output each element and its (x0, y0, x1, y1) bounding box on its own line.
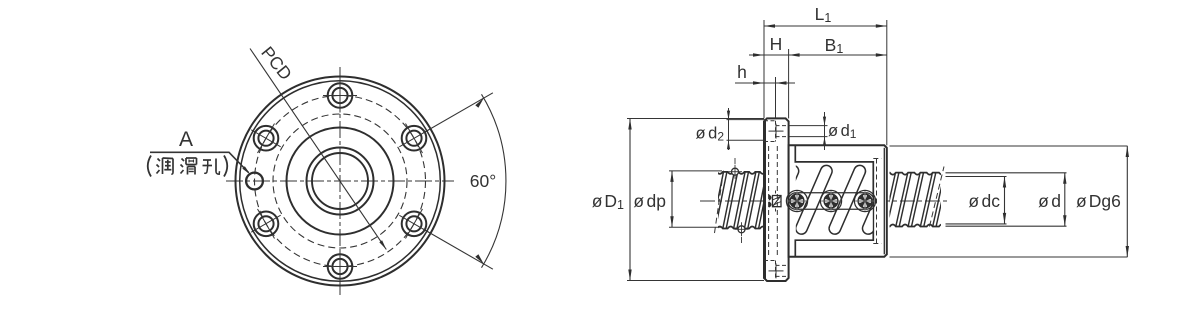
bolt hole B4 hole circle (332, 259, 347, 274)
flange outer chamfer circle (240, 81, 441, 282)
bore chamfer circle (307, 148, 374, 215)
svg-text:PCD: PCD (257, 43, 296, 84)
balls (790, 194, 804, 208)
bolt hole B5 counterbore circle (402, 212, 427, 237)
svg-text:L1: L1 (815, 4, 832, 25)
flange outer circle (236, 77, 445, 286)
svg-text:B1: B1 (825, 35, 844, 56)
svg-text:ødc: ødc (968, 191, 1000, 211)
bolt hole B4 centermark (339, 250, 341, 284)
dimension d1 (789, 125, 828, 127)
bolt hole B6 counterbore circle (402, 126, 427, 151)
bolt hole B2 hole circle (258, 131, 273, 146)
bolt hole B1 hole circle (332, 88, 347, 103)
dimension d (1064, 173, 1066, 226)
spigot recess dashed circle (273, 114, 407, 248)
svg-text:øDg6: øDg6 (1076, 191, 1121, 211)
bolt hole B3 centermark (251, 215, 281, 232)
label lubrication hole (Chinese) (148, 156, 151, 177)
svg-text:øD1: øD1 (592, 191, 624, 212)
lubrication hole (246, 173, 263, 190)
bolt hole B3 counterbore circle (254, 212, 279, 237)
flange bolt hole dashed bottom (776, 264, 789, 266)
dimension h (735, 82, 795, 84)
flange bolt centermark bottom (769, 270, 784, 272)
shaft outline d lines (946, 172, 1067, 174)
bolt hole B4 counterbore circle (328, 254, 353, 279)
flange hidden line dashed vertical (776, 146, 778, 256)
60 degree line lower (423, 229, 493, 269)
bolt hole B6 hole circle (406, 131, 421, 146)
shaft outline dc lines (946, 176, 1007, 178)
60 degree line upper (423, 93, 493, 133)
nut bore step left top (795, 145, 873, 256)
Dg6 extension lines (890, 145, 1128, 147)
svg-text:ød1: ød1 (828, 122, 857, 141)
ball track band (788, 193, 874, 210)
nut body rect (789, 145, 887, 256)
grease hole in flange (769, 194, 772, 208)
flange bolt centermark top (769, 130, 784, 132)
svg-text:ød: ød (1038, 191, 1061, 211)
dimension Dg6 (1126, 146, 1128, 257)
flange left edge thick (764, 120, 766, 279)
dimension dc (1004, 177, 1006, 224)
60 degree arc (482, 94, 506, 267)
bore circle (312, 153, 368, 209)
bolt hole B5 centermark (399, 215, 429, 232)
60 degree arc arrow lower (475, 254, 484, 264)
bolt hole B1 counterbore circle (328, 83, 353, 108)
bolt hole B2 centermark (251, 130, 281, 147)
label A leader line (150, 152, 249, 172)
dimension dp (671, 171, 673, 227)
dimension H and B1 (749, 54, 887, 56)
dimension D1 (629, 119, 631, 281)
svg-text:H: H (770, 34, 783, 54)
flange bolt hole dashed top (776, 125, 789, 127)
60 degree arc arrow upper (475, 98, 484, 108)
bolt hole B1 centermark (339, 79, 341, 113)
svg-text:ødp: ødp (633, 191, 666, 211)
bolt hole B6 centermark (399, 130, 429, 147)
bolt circle PCD dashed (255, 96, 426, 267)
nut body circle (287, 128, 394, 235)
svg-text:h: h (737, 62, 747, 82)
svg-text:ød2: ød2 (696, 125, 725, 144)
svg-text:60°: 60° (470, 171, 496, 191)
svg-text:A: A (179, 128, 193, 151)
bolt hole B5 hole circle (406, 216, 421, 231)
front view centerline vertical (339, 67, 341, 295)
flange counterbore dashed top (764, 120, 776, 122)
bolt hole B3 hole circle (258, 216, 273, 231)
dimension d2 (727, 119, 766, 121)
flange counterbore dashed bottom (764, 260, 776, 262)
flange body rect (764, 118, 789, 281)
nut body right chamfer line (883, 148, 885, 255)
nut bore hidden dashed right (876, 159, 878, 244)
front view centerline horizontal (226, 180, 454, 182)
bolt hole B2 counterbore circle (254, 126, 279, 151)
dimension L1 (764, 25, 887, 27)
side view axis centerline (700, 200, 947, 202)
PCD leader line (250, 49, 386, 250)
